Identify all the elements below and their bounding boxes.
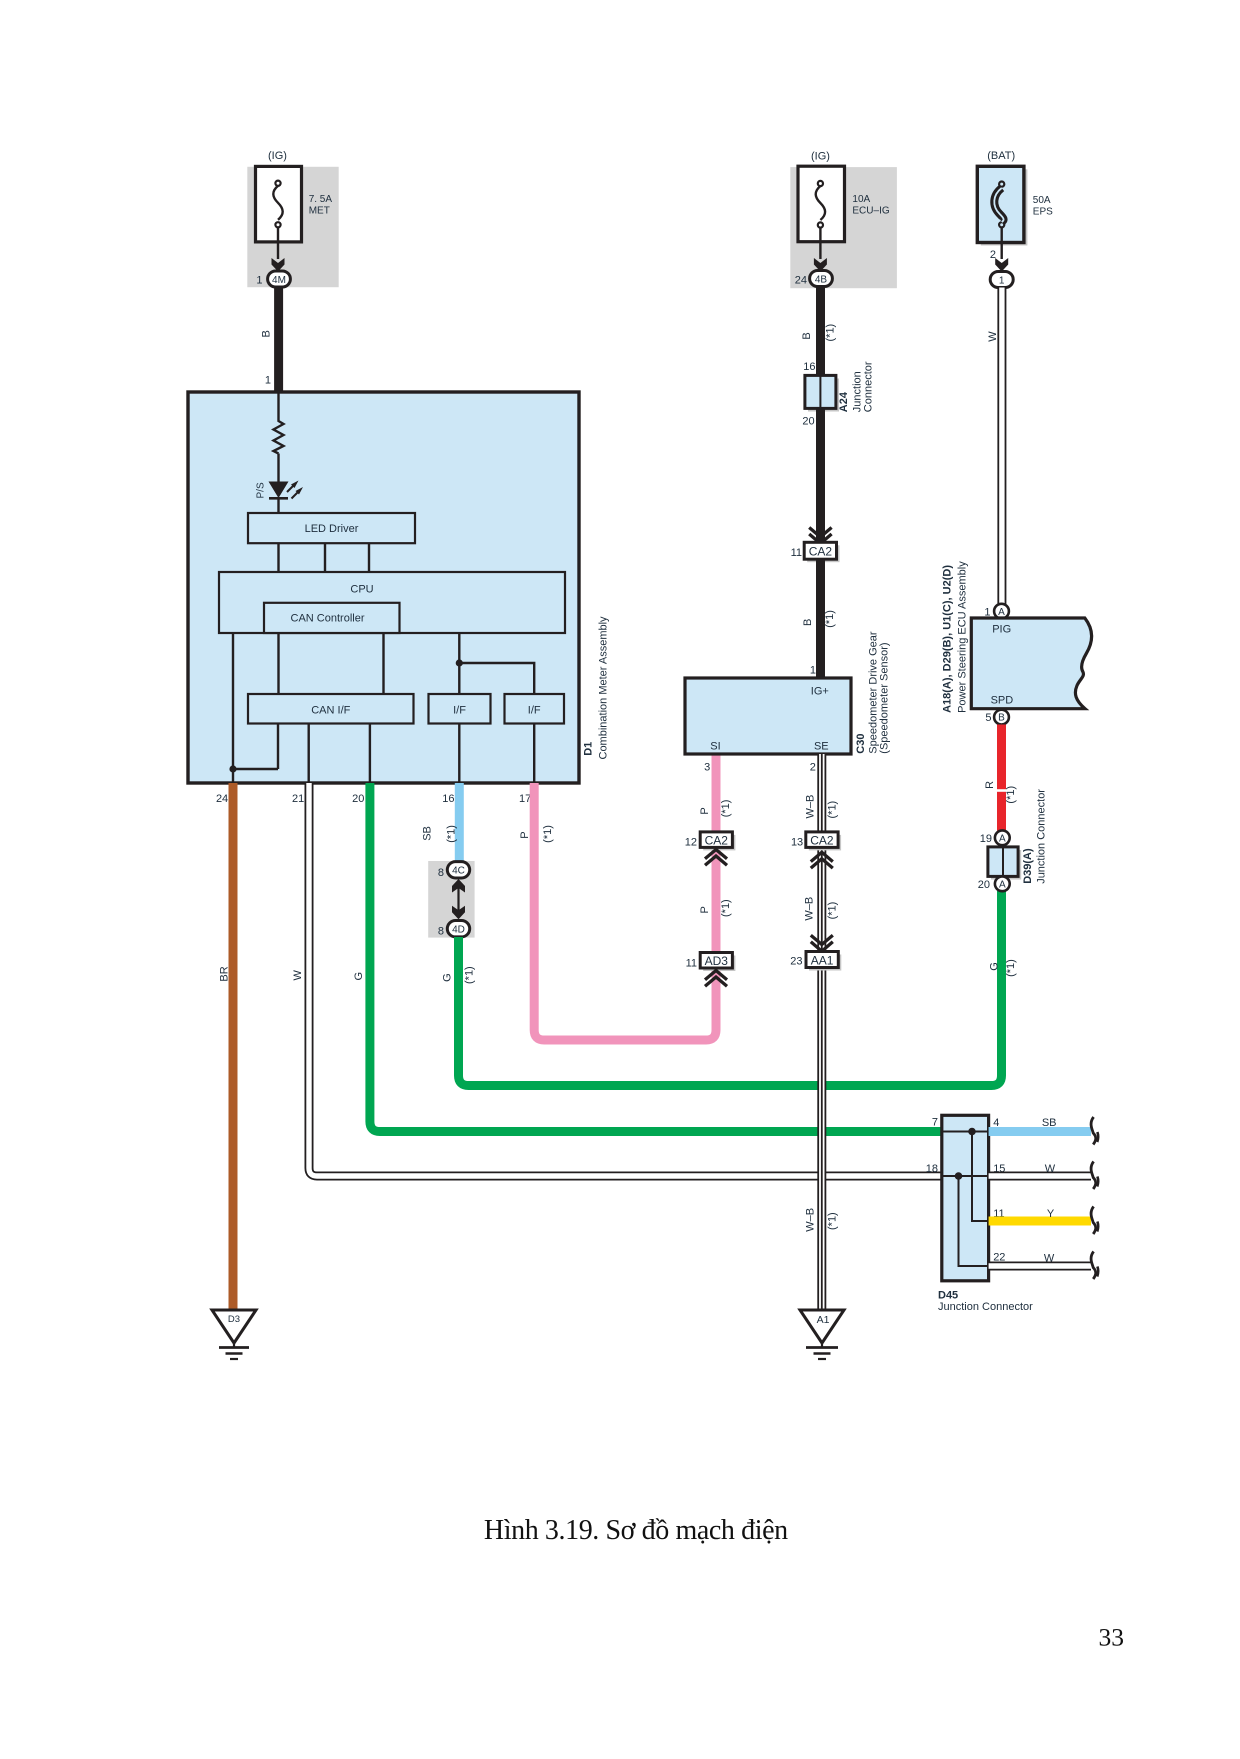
arrow into 4B [814,258,827,272]
svg-text:LED Driver: LED Driver [305,523,359,535]
svg-text:(*1): (*1) [1005,959,1017,977]
svg-text:1: 1 [810,664,816,676]
pin circle B (5) [994,710,1009,725]
svg-text:16: 16 [803,361,815,373]
svg-text:10A: 10A [852,194,870,205]
svg-text:P: P [519,831,531,838]
svg-text:W: W [1045,1163,1056,1175]
svg-text:11: 11 [686,958,697,970]
svg-text:G: G [441,973,453,982]
svg-text:(*1): (*1) [824,610,836,628]
svg-text:4M: 4M [272,275,286,286]
svg-text:D3: D3 [228,1314,240,1325]
svg-text:W–B: W–B [804,897,816,921]
svg-text:SB: SB [421,826,433,841]
svg-text:Power Steering ECU Assembly: Power Steering ECU Assembly [957,561,969,713]
wire fuse to connector 4M [277,227,279,259]
svg-text:18: 18 [926,1163,938,1175]
svg-text:20: 20 [352,793,364,805]
svg-text:D1: D1 [583,742,595,756]
speedometer sensor C30 box [685,678,851,754]
svg-text:50A: 50A [1033,195,1051,206]
svg-text:1: 1 [265,375,271,387]
svg-text:D39(A): D39(A) [1022,848,1034,884]
svg-text:(*1): (*1) [464,966,476,984]
wire CPU to pin24 with branch [232,633,234,783]
svg-text:(IG): (IG) [811,151,830,163]
wires CAN I/F to pins [308,724,310,784]
svg-text:SE: SE [814,741,829,753]
svg-text:11: 11 [791,547,802,559]
svg-text:CA2: CA2 [809,545,833,559]
svg-text:W: W [1044,1252,1055,1264]
svg-text:5: 5 [985,712,991,724]
power steering ECU assembly box [971,618,1091,709]
svg-text:2: 2 [990,249,996,261]
svg-text:SPD: SPD [991,694,1014,706]
wire W out pin 22 [989,1262,1091,1271]
fusible link 50A EPS [981,169,1028,245]
fuse 10A ECU-IG [798,166,845,242]
svg-text:IG+: IG+ [811,686,829,698]
connector arrows into AA1 [811,935,833,944]
svg-text:CPU: CPU [350,584,373,596]
I/F box left [429,694,491,724]
svg-text:CAN Controller: CAN Controller [291,613,365,625]
ground A1 [800,1310,844,1343]
svg-text:7: 7 [932,1117,938,1129]
svg-text:CA2: CA2 [705,834,729,848]
LED P/S indicator [269,482,289,499]
svg-text:SB: SB [1042,1117,1057,1129]
combination meter assembly D1 box [188,392,579,783]
wire B 4B to A24 [816,287,825,376]
svg-text:Junction Connector: Junction Connector [1036,789,1048,884]
pin circle A (1) [994,604,1009,619]
arrows between 4C and 4D [457,884,459,914]
svg-text:(Speedometer Sensor): (Speedometer Sensor) [879,642,891,753]
wire fuse to oval 1 [1001,227,1003,259]
resistor (meter illumination) [274,419,284,454]
svg-text:A24: A24 [838,391,850,412]
svg-text:(*1): (*1) [827,1212,839,1230]
svg-text:ECU–IG: ECU–IG [852,206,889,217]
wire CPU to I/F boxes [458,633,460,694]
wire G 4D to D39 pin20 [459,891,1002,1086]
svg-text:(*1): (*1) [827,801,839,819]
wire SB pin16 to 4C [455,783,464,862]
svg-text:BR: BR [218,966,230,981]
connector oval 4C pin 8 [447,862,469,878]
fuse 7.5A MET [256,166,302,242]
svg-text:8: 8 [438,867,444,879]
pin circle A (19) [995,830,1010,845]
wire Y out pin 11 [989,1217,1091,1226]
svg-text:2: 2 [810,762,816,774]
wire pin1 to resistor [277,392,279,419]
svg-text:A: A [998,607,1005,618]
wire resistor to LED [277,454,279,482]
connector oval 4B pin 24 [810,271,833,287]
svg-text:W: W [292,970,304,981]
svg-text:A: A [999,879,1006,890]
svg-text:Connector: Connector [862,361,874,412]
svg-text:17: 17 [519,793,531,805]
svg-text:(*1): (*1) [446,825,458,843]
junction connector D45 box [942,1115,989,1281]
connector oval pin 1 [990,272,1013,288]
fuse panel (grey) ECU-IG [790,167,897,288]
svg-text:P: P [699,906,711,913]
svg-text:23: 23 [790,956,802,968]
svg-text:P/S: P/S [256,482,267,498]
svg-text:W: W [987,331,999,342]
wire B (black) 4M to D1 pin 1 [274,287,283,392]
svg-text:(*1): (*1) [720,800,732,818]
svg-text:(*1): (*1) [825,324,837,342]
wire BR pin24 to ground D3 [229,783,238,1310]
LED Driver box [248,513,415,543]
svg-text:C30: C30 [855,734,867,754]
svg-text:Hình 3.19. Sơ đồ mạch điện: Hình 3.19. Sơ đồ mạch điện [484,1515,788,1546]
svg-text:W–B: W–B [805,1208,817,1232]
svg-text:(*1): (*1) [542,825,554,843]
svg-text:B: B [802,619,814,626]
svg-text:AD3: AD3 [705,954,729,968]
svg-text:EPS: EPS [1033,207,1053,218]
svg-text:(*1): (*1) [720,899,732,917]
wire B CA2 to C30 [816,559,825,677]
svg-text:(*1): (*1) [1005,786,1017,804]
CPU box [219,572,565,633]
wire P pin17 to AD3 branch [534,754,716,1040]
svg-text:20: 20 [802,416,814,428]
CAN Controller box [264,603,400,633]
svg-text:4C: 4C [452,866,465,877]
svg-text:W–B: W–B [804,795,816,819]
svg-text:7. 5A: 7. 5A [309,194,333,205]
ground D3 [212,1310,256,1343]
svg-text:MET: MET [309,206,330,217]
svg-text:13: 13 [791,837,803,849]
pin circle A (20) [995,876,1010,891]
svg-text:Junction Connector: Junction Connector [938,1301,1033,1313]
wire W to PS ECU pin A (double line) [997,288,1006,605]
svg-text:24: 24 [216,793,228,805]
wire G pin20 to D45 pin7 [370,783,942,1132]
wires LED Driver to CPU [277,543,279,572]
junction dots [968,1128,976,1136]
svg-text:21: 21 [292,793,304,805]
svg-text:AA1: AA1 [811,954,834,968]
wires CPU to CAN I/F [277,633,279,694]
svg-text:4B: 4B [815,274,828,285]
wire B A24 to CA2 [816,408,825,542]
svg-text:B: B [998,713,1005,724]
connector oval 4M pin 1 [268,271,291,287]
wire W-B SE to ground A1 (white-black) [817,754,826,1310]
svg-text:CAN I/F: CAN I/F [311,705,350,717]
svg-text:D45: D45 [938,1289,958,1301]
CAN I/F box [248,694,414,724]
I/F box right [505,694,565,724]
svg-text:SI: SI [710,741,720,753]
svg-text:24: 24 [795,275,807,287]
svg-text:CA2: CA2 [810,834,834,848]
svg-text:B: B [801,332,813,339]
connector panel 4C/4D (grey) [428,861,474,938]
svg-text:(BAT): (BAT) [987,150,1015,162]
svg-text:P: P [699,807,711,814]
wire W out pin 15 [989,1172,1091,1181]
svg-text:3: 3 [704,762,710,774]
internal bus lines [943,1131,988,1133]
wire R SPD to D39 [997,725,1006,831]
connector oval 4D pin 8 [447,921,469,937]
svg-text:A18(A), D29(B), U1(C), U2(D): A18(A), D29(B), U1(C), U2(D) [942,565,954,713]
svg-text:12: 12 [685,837,697,849]
junction connector D39(A) [991,850,1021,880]
svg-text:1: 1 [256,275,262,287]
wire SB out pin 4 [989,1127,1091,1136]
svg-text:8: 8 [438,926,444,938]
svg-text:I/F: I/F [528,705,541,717]
svg-text:G: G [988,962,1000,971]
svg-text:16: 16 [442,793,454,805]
svg-text:19: 19 [980,833,992,845]
connector arrows into CA2 [809,528,831,538]
arrow into 4M [272,258,285,272]
svg-text:(*1): (*1) [827,902,839,920]
svg-text:R: R [984,781,996,789]
wire W pin21 to D45 pin18 (double line) [309,783,942,1176]
svg-text:Combination Meter Assembly: Combination Meter Assembly [598,616,610,760]
svg-text:B: B [261,330,273,337]
svg-text:PIG: PIG [992,624,1011,636]
svg-text:(IG): (IG) [268,150,287,162]
svg-text:1: 1 [999,275,1005,286]
fuse panel (grey) MET [247,167,338,287]
wire fuse to 4B [819,228,821,260]
svg-text:20: 20 [978,879,990,891]
svg-text:33: 33 [1099,1623,1125,1652]
wire LED to LED Driver [277,498,279,513]
svg-text:Y: Y [1047,1208,1055,1220]
arrow into oval 1 [995,258,1008,272]
svg-text:I/F: I/F [453,705,466,717]
svg-text:G: G [353,972,365,981]
svg-text:A1: A1 [817,1314,830,1326]
svg-text:A: A [999,833,1006,844]
svg-text:4D: 4D [452,925,465,936]
